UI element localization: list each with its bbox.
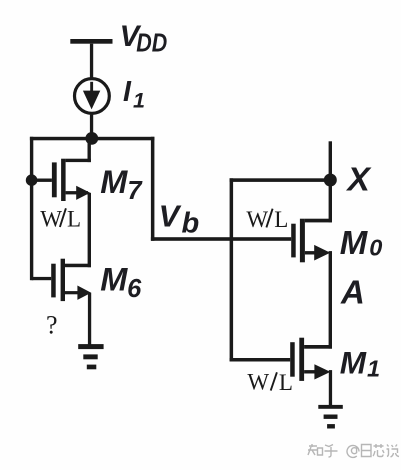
svg-text:A: A — [340, 273, 365, 310]
svg-text:6: 6 — [127, 275, 142, 303]
svg-text:7: 7 — [127, 177, 143, 205]
svg-text:M: M — [340, 344, 367, 380]
svg-text:X: X — [346, 161, 373, 198]
svg-text:1: 1 — [367, 355, 380, 381]
svg-text:M: M — [100, 164, 128, 200]
svg-text:L: L — [274, 207, 288, 232]
svg-text:W: W — [247, 369, 269, 394]
svg-text:W: W — [246, 207, 268, 232]
svg-text:V: V — [159, 199, 182, 234]
svg-text:L: L — [279, 370, 293, 395]
svg-text:0: 0 — [369, 235, 382, 261]
svg-text:b: b — [182, 208, 200, 240]
svg-text:1: 1 — [133, 89, 145, 113]
svg-text:L: L — [67, 207, 81, 232]
svg-text:?: ? — [46, 311, 58, 340]
svg-text:DD: DD — [136, 29, 167, 57]
svg-text:I: I — [123, 76, 132, 108]
svg-text:M: M — [100, 261, 128, 297]
svg-text:W: W — [40, 206, 62, 231]
svg-text:M: M — [340, 224, 369, 261]
